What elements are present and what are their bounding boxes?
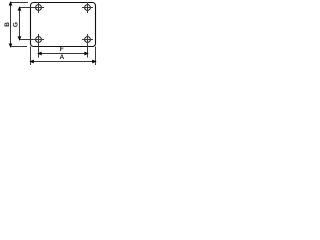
arrow A left <box>30 60 33 63</box>
hole bottom-right <box>85 37 91 43</box>
extension line left for F (from bottom-left hole centerline) <box>38 34 40 58</box>
extension line right for A <box>95 47 97 66</box>
centerline hole top-left vertical <box>38 2 40 13</box>
svg-text:B: B <box>4 22 11 27</box>
dimension line G <box>19 8 21 40</box>
arrow G bottom <box>18 37 21 40</box>
svg-text:A: A <box>59 54 64 61</box>
extension line top for B <box>11 2 29 4</box>
extension line bottom for B <box>11 46 28 48</box>
hole top-left <box>36 5 42 11</box>
extension line bottom for G (joins bottom-left hole centerline) <box>20 39 45 41</box>
arrow F left <box>38 52 41 55</box>
plate outline <box>31 3 96 47</box>
centerline hole bottom-right horizontal <box>82 39 93 41</box>
arrow B top <box>9 2 12 5</box>
svg-text:F: F <box>60 46 64 53</box>
svg-text:G: G <box>13 22 20 27</box>
extension line left for A <box>30 47 32 66</box>
extension line right for F (from bottom-right hole centerline) <box>87 34 89 58</box>
arrow A right <box>93 60 96 63</box>
arrow B bottom <box>9 44 12 47</box>
extension line top for G (joins top-left hole centerline) <box>20 7 45 9</box>
centerline hole top-right <box>82 2 93 13</box>
hole bottom-left <box>36 37 42 43</box>
dimension line B <box>10 3 12 47</box>
arrow F right <box>85 52 88 55</box>
dimension line A <box>31 61 96 63</box>
hole top-right <box>85 5 91 11</box>
dimension line F <box>39 53 88 55</box>
arrow G top <box>18 7 21 10</box>
